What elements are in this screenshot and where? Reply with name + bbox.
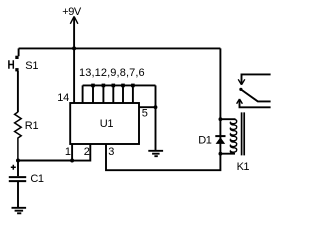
- svg-text:1: 1: [65, 146, 71, 158]
- svg-text:2: 2: [84, 146, 90, 158]
- svg-text:+9V: +9V: [62, 6, 82, 18]
- svg-text:14: 14: [57, 92, 69, 104]
- svg-text:R1: R1: [25, 120, 39, 132]
- svg-text:3: 3: [108, 146, 114, 158]
- svg-text:D1: D1: [198, 135, 211, 147]
- svg-text:C1: C1: [30, 173, 44, 185]
- svg-text:5: 5: [142, 108, 148, 120]
- svg-text:S1: S1: [25, 60, 38, 72]
- svg-text:U1: U1: [100, 118, 114, 130]
- svg-text:13,12,9,8,7,6: 13,12,9,8,7,6: [79, 67, 145, 79]
- svg-text:K1: K1: [237, 161, 250, 173]
